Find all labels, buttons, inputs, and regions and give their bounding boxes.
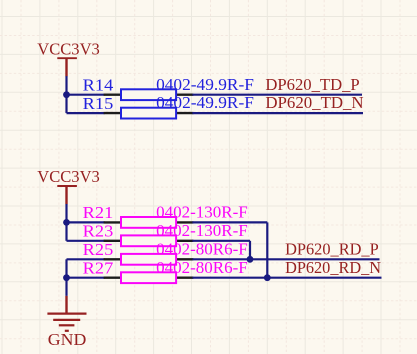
resistor R15 [104,108,194,119]
svg-text:0402-130R-F: 0402-130R-F [156,203,248,222]
wire [65,76,67,113]
value label 0402-49.9R-F (R14) [156,75,254,94]
wire [67,221,105,223]
svg-text:DP620_RD_N: DP620_RD_N [285,258,381,277]
wire [266,222,268,277]
svg-text:0402-80R6-F: 0402-80R6-F [156,258,248,277]
svg-text:DP620_TD_P: DP620_TD_P [265,75,359,94]
svg-text:0402-80R6-F: 0402-80R6-F [156,239,248,258]
resistor R14 [104,89,194,100]
svg-text:R23: R23 [83,222,114,241]
wire [65,204,67,241]
label R21 [83,203,114,222]
value label 0402-80R6-F (R25) [156,239,248,258]
wire [67,240,105,242]
wire [67,277,105,279]
svg-text:R21: R21 [83,203,114,222]
wire [192,94,362,96]
net label DP620_TD_P [265,75,359,94]
wire [67,112,105,114]
wire [192,112,363,114]
label R23 [83,222,114,241]
net label DP620_TD_N [265,93,363,112]
value label 0402-130R-F (R21) [156,203,248,222]
ground GND [47,296,86,349]
svg-text:DP620_RD_P: DP620_RD_P [285,239,379,258]
wire [67,258,105,260]
svg-text:0402-49.9R-F: 0402-49.9R-F [156,75,254,94]
svg-text:DP620_TD_N: DP620_TD_N [265,93,363,112]
power port VCC3V3 (top) [37,39,100,76]
wire [192,277,381,279]
net label DP620_RD_P [285,239,379,258]
svg-text:R14: R14 [83,75,114,94]
wire [67,94,105,96]
resistor R25 [104,254,194,265]
wire [192,240,250,242]
value label 0402-49.9R-F (R15) [156,93,254,112]
svg-text:R25: R25 [83,240,114,259]
svg-text:VCC3V3: VCC3V3 [37,39,100,58]
svg-text:R27: R27 [83,258,114,277]
svg-text:R15: R15 [83,94,114,113]
junction [247,256,254,263]
svg-text:0402-130R-F: 0402-130R-F [156,221,248,240]
wire [249,241,251,259]
resistor R23 [104,235,194,246]
svg-text:VCC3V3: VCC3V3 [37,167,100,186]
wire [192,221,267,223]
svg-text:GND: GND [48,330,87,349]
resistor R21 [104,217,194,228]
wire [65,259,67,296]
label R27 [83,258,114,277]
svg-text:0402-49.9R-F: 0402-49.9R-F [156,93,254,112]
junction [63,91,70,98]
net label DP620_RD_N [285,258,381,277]
junction [63,219,70,226]
label R15 [83,94,114,113]
wire [192,258,379,260]
value label 0402-80R6-F (R27) [156,258,248,277]
resistor R27 [104,272,194,283]
label R25 [83,240,114,259]
junction [264,274,271,281]
power port VCC3V3 (bottom) [37,167,100,204]
value label 0402-130R-F (R23) [156,221,248,240]
label R14 [83,75,114,94]
junction [63,274,70,281]
